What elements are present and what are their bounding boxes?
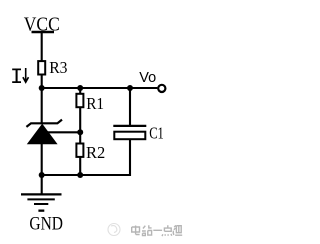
ground bar 3 — [34, 203, 48, 205]
ground dash — [38, 210, 44, 212]
wire node A to zener — [41, 88, 43, 124]
current arrow — [23, 68, 29, 82]
wire node D to R2 — [79, 132, 81, 143]
node C (C1 top) — [127, 85, 133, 91]
watermark icon — [108, 224, 120, 236]
wire R1 to node D — [79, 107, 81, 132]
resistor R2 — [76, 144, 83, 157]
top rail wire — [42, 87, 158, 89]
resistor R1 — [76, 94, 83, 107]
svg-text:I: I — [10, 65, 23, 90]
VCC power bar — [32, 31, 55, 33]
wire R3 to node A — [41, 75, 43, 89]
svg-text:R1: R1 — [86, 96, 104, 114]
node E (R2 bottom) — [77, 172, 83, 178]
node A — [39, 85, 45, 91]
wire R2 to node E — [79, 157, 81, 175]
resistor R3 — [38, 61, 45, 74]
svg-text:Vo: Vo — [139, 70, 156, 86]
zener cathode bar — [26, 120, 62, 127]
svg-text:C1: C1 — [149, 125, 164, 143]
zener diode triangle — [27, 124, 58, 145]
wire zener anode to bottom rail — [41, 144, 43, 175]
wire node F to ground — [41, 175, 43, 195]
bottom rail wire — [42, 174, 131, 176]
wire zener tap to node D — [46, 131, 80, 133]
capacitor C1 bottom plate box — [114, 132, 145, 140]
ground bar 2 — [27, 198, 54, 200]
ground bar 1 — [21, 193, 62, 195]
svg-text:GND: GND — [29, 212, 63, 234]
wire node B to R1 — [79, 88, 81, 94]
watermark text dian lu yi dian tong — [132, 225, 182, 236]
wire VCC bar to R3 — [41, 32, 43, 61]
svg-text:R2: R2 — [86, 143, 105, 162]
wire C1 to bottom rail — [129, 139, 131, 176]
node F (ground junction) — [39, 172, 45, 178]
output terminal — [158, 85, 165, 92]
node D (R1/R2 junction) — [77, 129, 83, 135]
wire node C to C1 — [129, 88, 131, 126]
capacitor C1 top plate — [113, 125, 146, 127]
node B (R1 top) — [77, 85, 83, 91]
svg-text:R3: R3 — [49, 60, 67, 77]
